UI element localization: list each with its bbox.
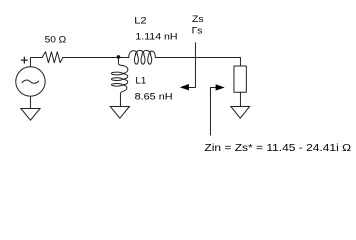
svg-text:1.114 nH: 1.114 nH	[135, 32, 177, 42]
svg-text:Γs: Γs	[192, 26, 203, 36]
svg-text:L2: L2	[134, 16, 147, 26]
svg-text:8.65 nH: 8.65 nH	[135, 92, 173, 102]
svg-text:Zs: Zs	[192, 14, 204, 24]
svg-text:Zin = Zs* = 11.45 - 24.41i Ω: Zin = Zs* = 11.45 - 24.41i Ω	[204, 143, 351, 154]
svg-text:50 Ω: 50 Ω	[45, 35, 67, 45]
svg-text:L1: L1	[135, 76, 146, 87]
